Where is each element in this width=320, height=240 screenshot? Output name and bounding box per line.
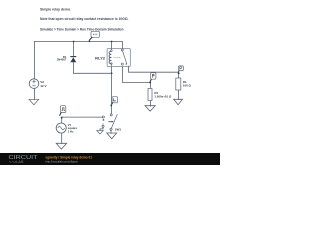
svg-text:Note that open circuit relay c: Note that open circuit relay contact res…	[40, 17, 129, 21]
svg-text:Simulate > Time Domain > Run T: Simulate > Time Domain > Run Time-Domain…	[40, 27, 124, 31]
svg-text:Simple relay demo.: Simple relay demo.	[40, 7, 71, 11]
svg-text:SW1: SW1	[115, 127, 122, 131]
svg-text:1.000e+10 Ω: 1.000e+10 Ω	[154, 95, 172, 99]
svg-text:1N4007: 1N4007	[57, 58, 67, 62]
svg-text:12 V: 12 V	[40, 84, 47, 88]
svg-text:RLY2: RLY2	[95, 56, 105, 60]
svg-text:http://circuitlab.com/c9tpzor: http://circuitlab.com/c9tpzor	[46, 160, 79, 164]
svg-text:100 Ω: 100 Ω	[183, 83, 192, 87]
svg-text:∿∿▪LAB: ∿∿▪LAB	[9, 160, 25, 164]
svg-text:1 Hz: 1 Hz	[68, 129, 74, 133]
